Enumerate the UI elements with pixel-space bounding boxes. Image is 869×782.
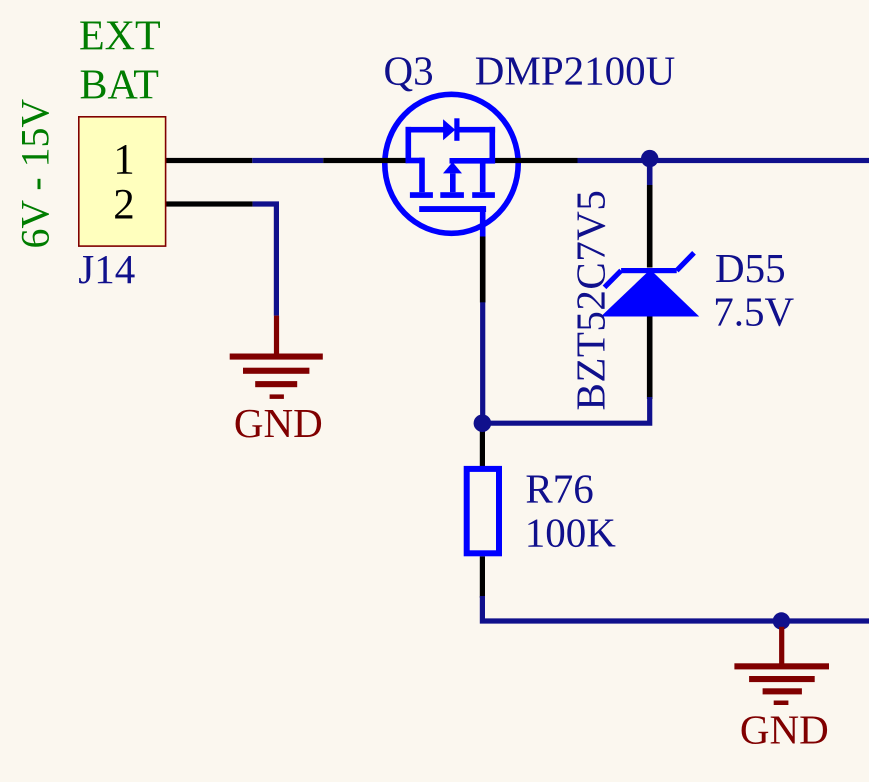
svg-text:1: 1 xyxy=(113,137,135,184)
Q3 source stem left xyxy=(419,158,425,193)
GND1 bar 1 xyxy=(230,354,323,360)
zener D55 cathode bend left xyxy=(605,271,622,288)
svg-text:EXT: EXT xyxy=(79,13,161,59)
wire zener anode pin (black) xyxy=(647,317,653,400)
svg-text:GND: GND xyxy=(234,400,323,446)
svg-text:2: 2 xyxy=(113,182,135,229)
junction node at gate/R76 xyxy=(474,414,492,432)
Q3 body-diode top rail left xyxy=(406,127,444,133)
Q3 right loop vertical xyxy=(490,127,496,163)
connector J14 body xyxy=(79,117,166,246)
svg-text:GND: GND xyxy=(740,707,829,753)
GND1 bar 3 xyxy=(255,381,297,387)
Q3 body-diode triangle xyxy=(443,119,455,140)
GND2 bar 4 xyxy=(774,701,789,706)
svg-text:R76: R76 xyxy=(525,465,593,511)
wire J14 pin1 lead (black) xyxy=(166,158,252,163)
wire pin1 segment (navy) xyxy=(252,158,323,163)
zener D55 cathode bar xyxy=(621,268,677,273)
svg-text:J14: J14 xyxy=(78,246,135,292)
junction node at GND2 tap xyxy=(773,612,790,629)
wire Q3 drain pin (black) xyxy=(489,158,578,163)
Q3 substrate stem xyxy=(450,173,456,192)
Q3 channel bar left xyxy=(410,192,433,198)
Q3 source jog horizontal xyxy=(406,158,425,164)
Q3 drain stem right xyxy=(480,158,486,192)
svg-text:7.5V: 7.5V xyxy=(713,289,794,335)
wire R76 top pin (black) xyxy=(480,430,485,466)
wire zener top stub (navy) xyxy=(647,164,653,185)
Q3 body-diode cathode bar xyxy=(454,118,459,141)
GND1 bar 4 xyxy=(270,394,284,399)
GND2 bar 1 xyxy=(734,663,829,669)
Q3 gate lead xyxy=(480,206,486,236)
wire drain to right edge (navy) xyxy=(578,158,869,163)
svg-text:DMP2100U: DMP2100U xyxy=(475,48,675,94)
wire pin2 to GND corner (navy) xyxy=(253,204,277,316)
GND1 bar 2 xyxy=(243,368,309,374)
ground symbol GND1 stem xyxy=(274,316,279,357)
GND2 bar 2 xyxy=(749,676,815,682)
zener D55 cathode bend right xyxy=(677,253,694,271)
svg-text:Q3: Q3 xyxy=(384,48,434,94)
Q3 substrate arrow triangle xyxy=(443,162,462,173)
wire J14 pin2 lead (black) xyxy=(166,201,253,206)
Q3 body-diode top rail right xyxy=(458,127,495,133)
GND2 bar 3 xyxy=(763,688,802,694)
Q3 gate bar xyxy=(419,206,486,212)
wire Q3 source pin (black) xyxy=(323,158,407,163)
svg-text:6V - 15V: 6V - 15V xyxy=(14,99,58,249)
svg-text:BAT: BAT xyxy=(80,63,159,109)
svg-text:100K: 100K xyxy=(525,509,617,555)
wire zener anode to node (navy) xyxy=(482,397,649,423)
resistor R76 body xyxy=(467,469,499,553)
wire gate to node (navy) xyxy=(480,302,485,418)
Q3 channel bar right xyxy=(472,192,495,198)
wire R76 bottom to right edge (navy) xyxy=(482,596,869,621)
transistor Q3 body circle xyxy=(385,94,518,233)
ground symbol GND2 stem xyxy=(779,627,784,666)
Q3 inner rail right xyxy=(450,158,496,164)
wire R76 bottom pin (black) xyxy=(480,556,485,598)
wire Q3 gate pin (black) xyxy=(480,237,486,303)
zener diode D55 triangle xyxy=(601,270,699,317)
svg-text:BZT52C7V5: BZT52C7V5 xyxy=(568,190,614,411)
junction node at Q3 drain xyxy=(641,150,658,167)
svg-text:D55: D55 xyxy=(715,245,786,291)
transistor Q3 internal: left loop vertical xyxy=(406,127,412,162)
wire zener cathode pin (black) xyxy=(647,185,653,268)
Q3 channel bar middle xyxy=(440,192,464,198)
